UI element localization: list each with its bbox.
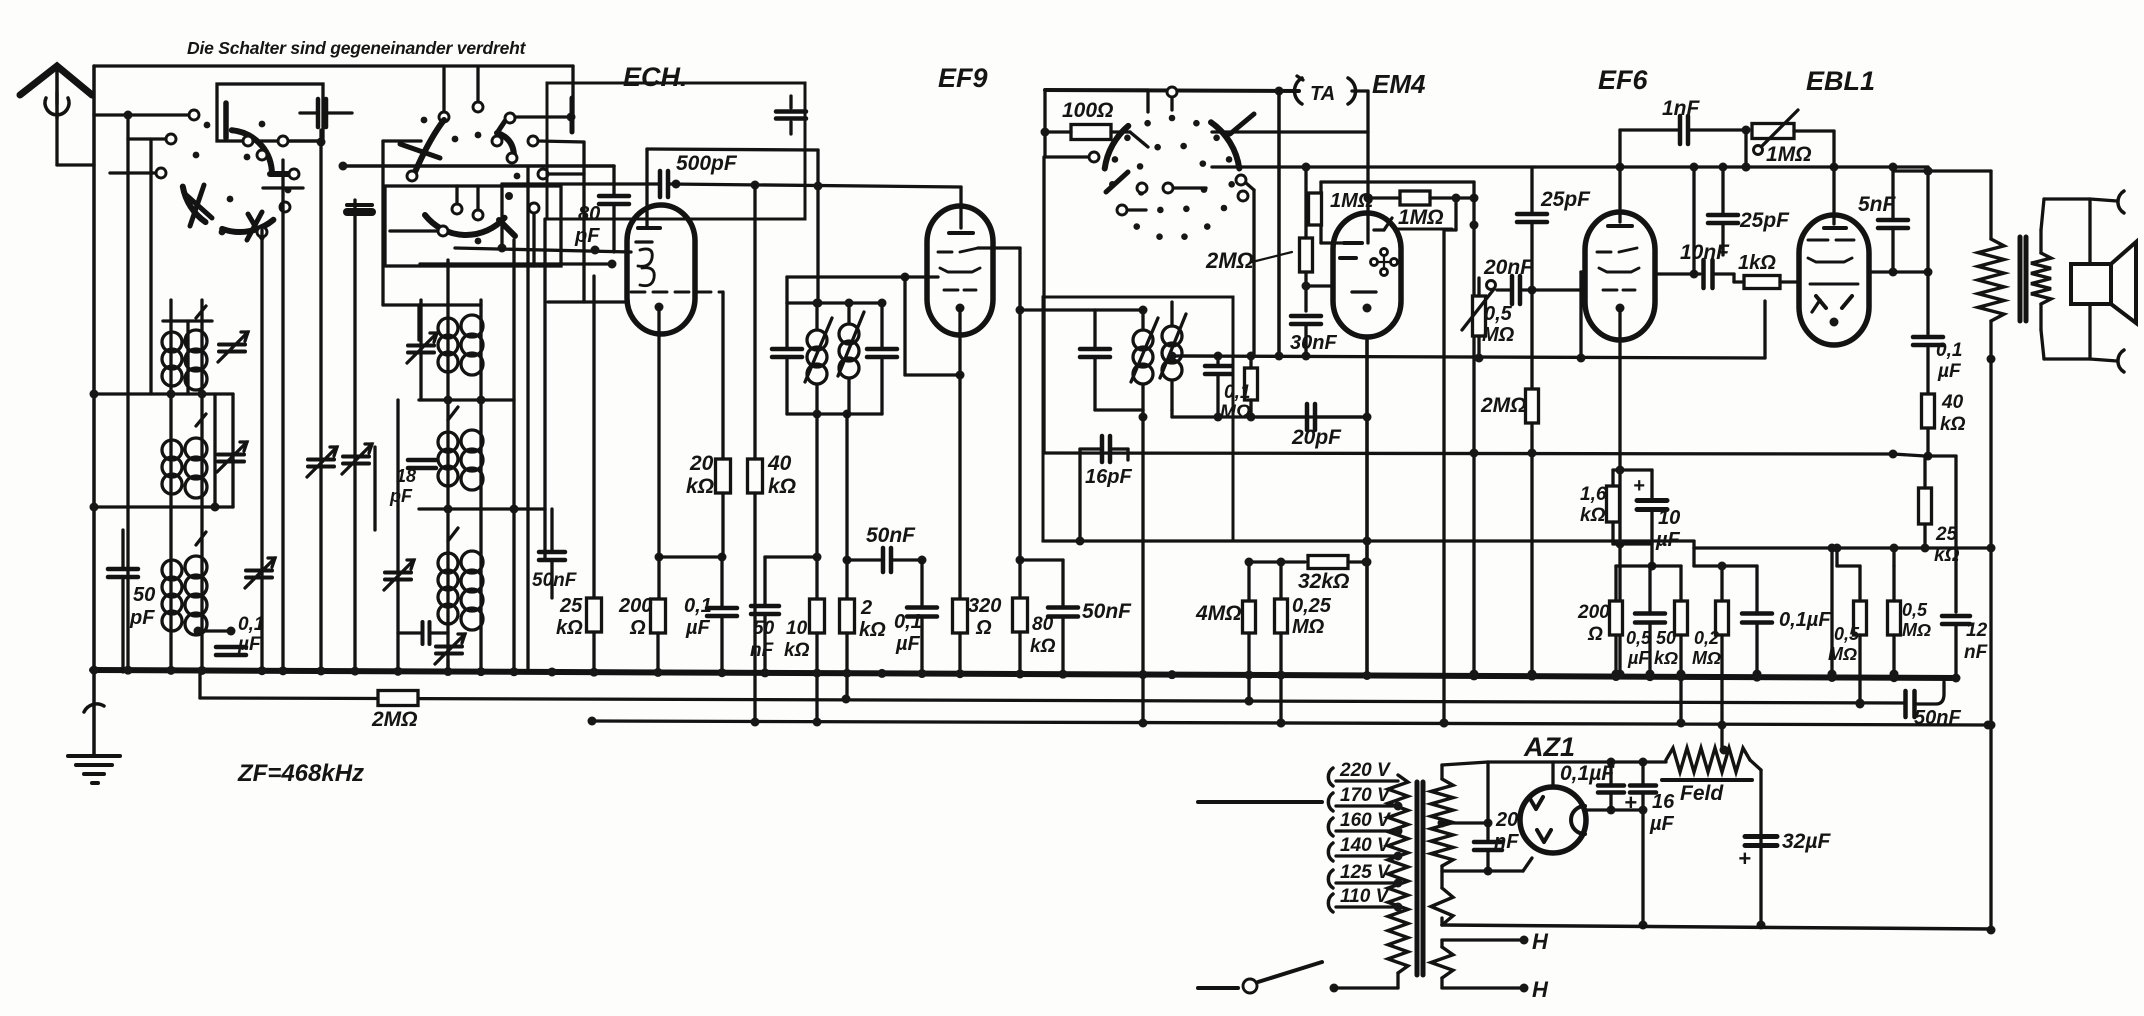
wire plate line (1488, 760, 1666, 763)
svg-text:0,1: 0,1 (1224, 382, 1250, 403)
wire v355 (353, 200, 356, 672)
wire v283 (281, 160, 284, 672)
contact 3 (156, 168, 166, 178)
rotary switch S1 arc c (222, 220, 273, 232)
wire v1444 (1442, 230, 1445, 722)
capacitor 0.1uF out (1913, 335, 1943, 340)
svg-text:EF6: EF6 (1598, 65, 1649, 95)
svg-text:2MΩ: 2MΩ (1205, 248, 1254, 273)
svg-text:40: 40 (1941, 392, 1964, 413)
avc rail junctions (842, 695, 851, 704)
shield box S2 (385, 186, 561, 266)
coil IF1 primary (807, 330, 827, 350)
capacitor 25pF ef6 (1517, 212, 1547, 217)
tube EF9 internals (949, 231, 973, 235)
wire main ground bus (92, 670, 1956, 678)
wire S2 y141 right (528, 136, 538, 146)
svg-text:4MΩ: 4MΩ (1195, 602, 1242, 625)
wire ebl1 anode (1869, 270, 1928, 273)
wire 16uF down (1641, 810, 1644, 925)
svg-text:0,1: 0,1 (1936, 340, 1962, 361)
svg-text:1MΩ: 1MΩ (1766, 143, 1812, 166)
svg-text:50nF: 50nF (532, 570, 578, 591)
svg-text:H: H (1532, 929, 1549, 954)
svg-text:50nF: 50nF (1082, 600, 1132, 623)
wire EF9 cathode (958, 308, 961, 599)
wire col2 (126, 115, 129, 672)
resistor 10k (810, 599, 825, 633)
wire y132 line (1212, 130, 1368, 133)
coil IF2 secondary (1162, 326, 1182, 346)
label Feld (1662, 778, 1752, 782)
resistor 0.5M b (1888, 601, 1901, 635)
wire EF9 grid return (905, 373, 960, 376)
svg-text:20: 20 (1495, 809, 1518, 831)
wire IF1 right down (845, 414, 848, 599)
rotary switch S2 arc bottom (425, 215, 505, 235)
tube EM4 internals (1374, 228, 1384, 231)
svg-text:TA: TA (1310, 83, 1335, 105)
wire h557b (765, 555, 817, 558)
trimmer gang A (308, 458, 334, 462)
svg-text:125 V: 125 V (1340, 862, 1391, 883)
resistor 80k (1013, 598, 1028, 632)
svg-text:MΩ: MΩ (1220, 402, 1251, 423)
svg-text:nF: nF (750, 640, 775, 661)
wire h394 (94, 392, 233, 395)
wire ef6 grid (1532, 288, 1585, 291)
capacitor IF2 left (1080, 347, 1110, 352)
field coil (1978, 239, 2004, 321)
capacitor 1nF (1678, 116, 1683, 144)
svg-text:50: 50 (133, 584, 155, 606)
contact S1 b2 (257, 150, 267, 160)
svg-text:1kΩ: 1kΩ (1738, 252, 1776, 274)
wire v545 (543, 219, 546, 560)
svg-text:0,1: 0,1 (684, 595, 712, 617)
resistor 2M ef6 (1526, 389, 1539, 423)
trimmer C6 (436, 645, 462, 649)
wire v233 (231, 394, 234, 507)
svg-text:110 V: 110 V (1340, 886, 1390, 907)
wire v1928 (1926, 167, 1929, 334)
wire TA feed (1352, 89, 1368, 92)
svg-text:0,2: 0,2 (1694, 628, 1719, 648)
tube EF6 internals (1608, 224, 1632, 228)
trimmer C3 (246, 569, 272, 573)
resistor 32k (1308, 556, 1348, 569)
svg-text:EBL1: EBL1 (1806, 66, 1875, 96)
svg-text:1MΩ: 1MΩ (1398, 206, 1444, 229)
contact S1 b1 (243, 136, 253, 146)
svg-text:0,1: 0,1 (238, 614, 264, 635)
svg-text:+: + (1633, 475, 1645, 497)
wire EF9 screen (787, 275, 938, 278)
capacitor IF1 left (772, 347, 802, 352)
wire S2 pivot left (442, 67, 445, 112)
wire IF1 left down (815, 414, 818, 557)
capacitor 50nF row (539, 550, 565, 555)
resistor 0.2M out (1716, 601, 1729, 635)
svg-text:30nF: 30nF (1290, 332, 1337, 354)
wire heater winding (1431, 947, 1453, 978)
transformer HV secondary (1431, 779, 1453, 866)
wire v1044 (1042, 157, 1045, 453)
svg-text:0,5: 0,5 (1626, 628, 1652, 648)
wire detector rail (1172, 415, 1366, 418)
resistor 25k out (1919, 488, 1932, 524)
wire ECH left in2 (420, 262, 611, 265)
wire h507 (94, 505, 233, 508)
wire v383 (381, 141, 384, 305)
svg-text:160 V: 160 V (1340, 810, 1391, 831)
wire S3 top feed (1170, 96, 1173, 110)
wire v202 (200, 300, 203, 672)
svg-text:EF9: EF9 (938, 63, 988, 93)
svg-text:Ω: Ω (1587, 624, 1603, 645)
capacitor 500pF (658, 171, 663, 197)
capacitor 50nF out (1903, 691, 1908, 717)
svg-text:µF: µF (1649, 813, 1675, 835)
wire ebl1 top (1832, 131, 1835, 215)
contact S1 r2 (280, 202, 290, 212)
svg-text:12: 12 (1966, 620, 1988, 641)
wire v1279 (1277, 91, 1281, 356)
svg-text:pF: pF (129, 607, 155, 629)
capacitor 50pF (108, 567, 138, 572)
svg-text:AZ1: AZ1 (1523, 732, 1575, 762)
wire 25k chain (1893, 454, 1925, 456)
svg-text:+: + (1624, 790, 1637, 815)
shield box IF2 (1043, 297, 1233, 541)
wire link 200 (1616, 564, 1652, 567)
svg-text:MΩ: MΩ (1828, 644, 1857, 664)
shield box osc (547, 83, 805, 219)
svg-text:200: 200 (618, 595, 652, 617)
resistor 50k out (1675, 601, 1688, 635)
wire S1 y188 (263, 186, 303, 189)
svg-text:18: 18 (396, 466, 416, 486)
wire antenna lead (55, 118, 58, 165)
wire S3 c3 down (1246, 183, 1254, 190)
wire L1 top (163, 319, 212, 322)
wire S2 top feed (476, 68, 479, 101)
wire top rail ebl1 (1535, 165, 1928, 168)
tube EBL1 outline (1799, 215, 1869, 345)
wire S1 right stub (289, 139, 320, 142)
resistor 100 Ohm (1071, 125, 1111, 140)
wire v188 (186, 321, 189, 394)
wire v594 upper (592, 276, 595, 598)
speaker (2071, 264, 2111, 304)
svg-text:Feld: Feld (1680, 782, 1724, 805)
capacitor 10nF (1701, 260, 1706, 288)
capacitor 32uF (1745, 834, 1777, 839)
wire screen rail (1043, 539, 1694, 542)
svg-text:20nF: 20nF (1483, 256, 1534, 279)
capacitor IF1 right (867, 347, 897, 352)
svg-text:0,1µF: 0,1µF (1779, 609, 1831, 631)
rotary switch S3 dots (1169, 115, 1176, 122)
wire v514 (512, 240, 515, 672)
ground symbol (92, 672, 96, 756)
resistor 0.25M (1275, 599, 1288, 633)
svg-text:25: 25 (1935, 524, 1958, 545)
svg-text:2MΩ: 2MΩ (1480, 394, 1527, 417)
capacitor 0.5uF out (1635, 611, 1665, 616)
svg-text:kΩ: kΩ (686, 475, 714, 498)
wire R1 frame (417, 305, 420, 340)
wire antenna stub 1 (94, 113, 188, 116)
coil L1b (185, 330, 207, 352)
svg-text:10: 10 (1658, 507, 1680, 529)
wire HV top (1442, 762, 1488, 765)
wire h509r (419, 507, 545, 510)
svg-text:pF: pF (574, 225, 600, 247)
capacitor 25pF2 (1708, 213, 1738, 218)
wire v1532 mid (1530, 290, 1533, 389)
rotary switch S1 arc b (183, 187, 206, 223)
rotary switch S1 dots (204, 122, 211, 129)
wire AZ1 cathode line (1586, 808, 1643, 811)
svg-text:50nF: 50nF (866, 524, 916, 547)
svg-text:220 V: 220 V (1339, 760, 1391, 781)
rotary switch S2 lever b (497, 121, 505, 133)
wire v1474 upper (1472, 182, 1475, 310)
bus junctions (90, 666, 99, 675)
rotary switch S1 wiper (232, 130, 272, 170)
contact 1 (189, 110, 199, 120)
wire top rail (94, 64, 573, 67)
svg-text:MΩ: MΩ (1482, 324, 1515, 346)
wire ECH cathode (657, 334, 660, 599)
mains input line (1198, 800, 1322, 804)
wire y182 line (1321, 180, 1474, 183)
wire h631 (198, 629, 231, 632)
wire em4 cathode (1365, 337, 1369, 672)
wire det h562 (1249, 560, 1305, 563)
trimmer gang B (343, 455, 369, 459)
wire S2 y117 (516, 115, 573, 118)
wire S2 y141 left (383, 139, 421, 142)
rotary switch S3 arc a (1105, 126, 1129, 169)
contact S1 r3 (257, 227, 267, 237)
wire IF1 top (787, 301, 882, 304)
svg-text:MΩ: MΩ (1692, 648, 1721, 668)
tube EBL1 internals (1824, 226, 1846, 230)
svg-text:µF: µF (237, 634, 262, 655)
capacitor 50nF b (751, 604, 779, 609)
resistor 4M (1243, 601, 1256, 633)
wire ef6 cathode (1618, 308, 1621, 672)
coil R3b (461, 551, 483, 573)
svg-text:0,1µF: 0,1µF (1560, 762, 1615, 785)
resistor 0.1M det (1245, 368, 1258, 400)
svg-text:1nF: 1nF (1662, 97, 1701, 120)
capacitor 0.1uF ECH (707, 606, 737, 611)
wire k junction (659, 555, 722, 558)
choke Feld (1666, 748, 1750, 772)
rotary switch S2 lever a (415, 120, 444, 172)
capacitor in box (776, 109, 806, 114)
tube AZ1 (1520, 787, 1586, 853)
capacitor 16pF (1100, 436, 1105, 462)
svg-text:32kΩ: 32kΩ (1298, 570, 1349, 593)
tube EM4 outline (1333, 213, 1401, 337)
wire IF2 sec route (1172, 354, 1218, 357)
wire v1532 upper (1530, 167, 1533, 212)
capacitor 16uF (1630, 783, 1656, 788)
svg-text:kΩ: kΩ (1934, 545, 1960, 566)
coil IF1 secondary (839, 324, 859, 344)
svg-text:+: + (1738, 846, 1751, 871)
resistor 200 Ohm (651, 599, 666, 633)
wire EF9 anode out (978, 246, 1020, 249)
wire heater H2 (1442, 986, 1524, 989)
svg-text:kΩ: kΩ (1654, 648, 1678, 668)
capacitor 50nF c (1048, 605, 1078, 610)
wire v215 (213, 394, 216, 507)
resistor 1k (1744, 276, 1780, 289)
wire 500pF node (672, 180, 681, 189)
svg-text:10: 10 (786, 618, 808, 639)
svg-text:nF: nF (1494, 831, 1519, 853)
svg-text:ZF=468kHz: ZF=468kHz (237, 760, 364, 787)
svg-text:2MΩ: 2MΩ (371, 708, 418, 731)
capacitor 0.1uF psu (1598, 783, 1624, 788)
svg-text:kΩ: kΩ (556, 617, 583, 639)
wire v375 (373, 447, 376, 530)
capacitor 50nF top (881, 548, 886, 572)
svg-text:200: 200 (1577, 602, 1610, 623)
svg-text:5nF: 5nF (1858, 193, 1897, 216)
wire antenna stub 2 (128, 137, 165, 140)
wire speaker loop (2041, 199, 2044, 230)
capacitor 0.1uF mid (907, 605, 937, 610)
capacitor 18pF (408, 458, 436, 463)
contact S2 bot (452, 204, 462, 214)
svg-text:50: 50 (753, 618, 775, 639)
svg-text:µF: µF (1937, 361, 1962, 382)
antenna (20, 66, 92, 95)
wire anode to IF2 (1020, 308, 1095, 311)
transformer core out (2018, 237, 2023, 321)
svg-text:EM4: EM4 (1372, 69, 1426, 99)
heater rail junctions (588, 717, 597, 726)
wire h400r (419, 398, 514, 401)
wire ECH top rail (647, 149, 818, 150)
svg-text:25pF: 25pF (1739, 209, 1790, 232)
contact S3 2 (1238, 191, 1248, 201)
svg-text:1MΩ: 1MΩ (1330, 190, 1374, 212)
trimmer C2 (218, 453, 244, 457)
trimmer C4 (408, 344, 434, 348)
wire feld right down (1750, 760, 1761, 770)
wire mix grid (343, 164, 614, 168)
svg-text:170 V: 170 V (1340, 785, 1391, 806)
wire heater H1 (1442, 938, 1524, 941)
resistor 1M horiz (1400, 191, 1430, 205)
wire HV bottom (1442, 869, 1523, 872)
capacitor 5nF (1878, 218, 1908, 223)
wire TA line (1045, 90, 1299, 91)
wire v151 (149, 139, 152, 394)
svg-text:0,1: 0,1 (894, 611, 922, 633)
svg-text:40: 40 (767, 452, 792, 475)
svg-text:1,6: 1,6 (1580, 484, 1607, 505)
wire v171 (169, 300, 172, 672)
wire HV mid tap (1438, 819, 1447, 828)
potentiometer 1M (1752, 124, 1794, 139)
svg-text:50: 50 (1656, 628, 1676, 648)
svg-text:20: 20 (689, 452, 714, 475)
wire supply rail B plus (1044, 453, 1893, 454)
wire IF1 bottom (787, 412, 882, 415)
svg-text:20pF: 20pF (1291, 426, 1342, 449)
resistor 40k (748, 459, 763, 493)
transformer taps (1328, 768, 1333, 786)
capacitor 0.1uF row (1742, 611, 1772, 616)
rotary switch S1 bar (223, 103, 229, 138)
trimmer C1 (219, 343, 245, 347)
resistor 2MOhm AVC (378, 691, 418, 706)
wire ef6 anode (1655, 272, 1700, 275)
svg-text:140 V: 140 V (1340, 835, 1391, 856)
svg-text:0,5: 0,5 (1484, 303, 1513, 325)
wire ef6 top (1618, 167, 1621, 212)
wire ECH left in (455, 248, 631, 252)
capacitor 20nF ef6 (1510, 276, 1515, 304)
wire v398 (396, 400, 399, 672)
svg-text:kΩ: kΩ (859, 619, 886, 641)
contact 2 (166, 134, 176, 144)
coil out secondary (2031, 253, 2051, 304)
wire antenna stub 3 (110, 171, 155, 174)
svg-text:0,5: 0,5 (1834, 624, 1860, 644)
capacitor 80pF (599, 194, 629, 199)
coil R3a (438, 553, 458, 573)
capacitor coupling S1S2 (316, 99, 321, 127)
resistor 25k row (587, 598, 602, 632)
wire R3 bottom (446, 660, 449, 672)
wire S3 wiper left (1045, 155, 1088, 158)
shield box S1 (217, 84, 323, 141)
wire left border (92, 66, 96, 670)
coil R2a (438, 432, 458, 452)
svg-text:25: 25 (559, 595, 583, 617)
wire v262 (260, 230, 263, 672)
resistor 0.5M a (1854, 601, 1867, 635)
contact S3 4 (1163, 183, 1173, 193)
wire S3 stub 1 (1128, 208, 1146, 211)
capacitor small R3 (421, 622, 425, 644)
svg-text:25pF: 25pF (1540, 188, 1591, 211)
svg-text:pF: pF (389, 486, 413, 506)
svg-text:MΩ: MΩ (1292, 616, 1325, 638)
coil R1a (438, 318, 458, 338)
wire field down (1989, 359, 1992, 930)
wire AF rail (1180, 356, 1765, 358)
coil L1a (162, 332, 182, 352)
wire v1694 (1692, 167, 1695, 274)
svg-text:50nF: 50nF (1914, 707, 1961, 729)
wire AVC rail (200, 698, 1905, 703)
svg-text:kΩ: kΩ (784, 640, 810, 661)
wire IF2 bottom (1095, 408, 1143, 411)
svg-text:kΩ: kΩ (768, 475, 796, 498)
svg-text:kΩ: kΩ (1940, 414, 1966, 435)
resistor 2k (840, 599, 855, 633)
